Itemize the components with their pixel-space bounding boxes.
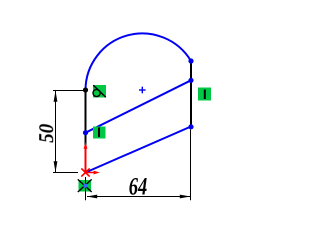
top diagonal sketch line (blue) bbox=[86, 80, 192, 132]
dimension 50: top arrow bbox=[54, 91, 58, 102]
right vertical sketch line (black) bbox=[190, 61, 192, 127]
origin marker (red) bbox=[81, 142, 100, 177]
arc center marker (blue cross) bbox=[139, 87, 146, 94]
X axis arrow bbox=[86, 172, 95, 174]
arc (under-defined, blue), tangent to left line at top bbox=[86, 33, 192, 90]
Y axis arrow bbox=[85, 148, 87, 173]
dimension 64: left arrow bbox=[87, 195, 98, 199]
dimension 50: bottom arrow bbox=[54, 161, 58, 172]
tangent relation icon bbox=[93, 85, 106, 98]
dimension 50: dimension line bbox=[55, 91, 57, 172]
svg-text:50: 50 bbox=[34, 123, 58, 142]
endpoint dot: right line bottom (blue) bbox=[188, 124, 193, 129]
endpoint dot: arc right end (blue) bbox=[188, 58, 193, 63]
endpoint dot: top diagonal right end (blue) bbox=[188, 78, 193, 83]
bottom diagonal sketch line (blue) bbox=[86, 127, 192, 173]
endpoint dot: arc/left-line junction (black) bbox=[83, 87, 88, 92]
dimension 64: left extension line bbox=[85, 177, 87, 200]
dimension 64: dimension line bbox=[87, 196, 190, 198]
vertical relation icon (left line) bbox=[93, 127, 106, 139]
vertical relation icon (right line) bbox=[198, 88, 211, 101]
dimension 64: right arrow bbox=[180, 195, 191, 199]
coincident icon center dot (blue) bbox=[83, 184, 87, 188]
coincident relation icon (origin) bbox=[78, 179, 92, 192]
dimension 50: bottom extension line bbox=[53, 172, 78, 174]
dimension 50: top extension line bbox=[53, 90, 84, 92]
dimension 64: right extension line bbox=[190, 130, 192, 201]
origin X cross bbox=[81, 168, 89, 176]
svg-text:64: 64 bbox=[129, 174, 148, 201]
left vertical sketch line (fully defined, black) bbox=[85, 90, 87, 173]
endpoint dot: top diagonal left end (blue) bbox=[83, 130, 88, 135]
